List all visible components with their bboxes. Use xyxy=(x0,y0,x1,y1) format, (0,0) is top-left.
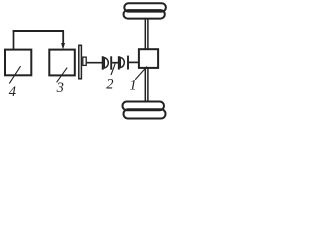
svg-text:3: 3 xyxy=(56,80,64,96)
top wheel upper tyre capsule xyxy=(124,3,166,11)
axle lower left line xyxy=(144,68,146,101)
wire vertical from box 4 top xyxy=(13,31,15,50)
universal joint 2 left fork bar xyxy=(102,56,104,69)
leader slash for label 3 xyxy=(57,68,68,83)
box 4 (component 4) xyxy=(5,50,31,76)
wire vertical down to box 3 xyxy=(62,31,64,45)
svg-text:1: 1 xyxy=(129,78,136,94)
shaft segment 2 (cardan shaft) xyxy=(112,62,118,64)
bottom wheel upper tyre capsule xyxy=(123,102,165,111)
svg-text:4: 4 xyxy=(9,84,16,100)
axle lower right line xyxy=(147,68,149,101)
top wheel lower tyre capsule xyxy=(124,10,165,19)
arrowhead into box 3 xyxy=(61,43,65,50)
svg-text:2: 2 xyxy=(106,76,113,92)
axle upper left line xyxy=(144,19,146,50)
universal joint 3 left fork bar xyxy=(118,56,120,69)
leader slash for label 1 xyxy=(135,67,147,80)
universal joint 3 right fork bar xyxy=(127,56,129,70)
leader slash for label 2 xyxy=(111,64,115,75)
shaft segment 3 into final drive xyxy=(129,61,139,63)
box 3 (component 3) xyxy=(49,50,75,76)
output hub xyxy=(83,57,86,65)
shaft segment 1 xyxy=(86,62,102,64)
universal joint 2 right fork bar xyxy=(110,56,112,69)
bottom wheel lower tyre capsule xyxy=(124,109,166,118)
universal joint 3 cross D-shell xyxy=(120,57,124,67)
axle upper right line xyxy=(147,19,149,50)
universal joint 2 cross D-shell xyxy=(104,58,108,68)
leader slash for label 4 xyxy=(9,66,20,83)
final drive box (component 1) xyxy=(139,49,158,68)
flange plate on box 3 output xyxy=(79,45,82,79)
wire horizontal top run xyxy=(13,30,64,32)
